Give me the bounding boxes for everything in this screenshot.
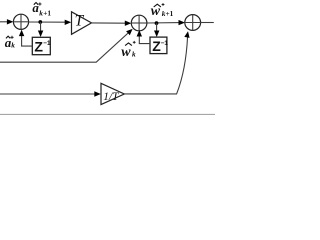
wire branch down to Z1 xyxy=(40,22,42,32)
wire T to S2 xyxy=(92,22,127,24)
arrowhead into summer S1 xyxy=(7,19,13,24)
wire middle input rising to S2 xyxy=(0,32,129,62)
wire output from S3 xyxy=(201,22,214,24)
arrowhead into S2 xyxy=(125,21,132,26)
arrowhead up into S2 xyxy=(137,30,142,37)
amplifier 1/T xyxy=(101,83,124,104)
node junction dot xyxy=(38,20,42,24)
gray rule bottom xyxy=(0,113,215,115)
wire S2 to S3 xyxy=(147,22,181,24)
arrowhead diagonal into S2 xyxy=(126,29,133,35)
svg-text:+1: +1 xyxy=(166,9,174,18)
delay box Z2 xyxy=(150,37,167,54)
arrowhead into Z2 box xyxy=(154,31,159,38)
arrowhead into T xyxy=(65,20,72,25)
svg-text:Z: Z xyxy=(34,38,43,54)
svg-text:−1: −1 xyxy=(161,40,169,47)
svg-text:w: w xyxy=(121,45,131,60)
label a-hat-plus k xyxy=(5,35,16,50)
amplifier T xyxy=(72,12,92,35)
svg-text:k: k xyxy=(132,50,136,59)
summer S2 xyxy=(131,15,147,31)
label w-hat-plus k+1 xyxy=(151,3,174,19)
arrowhead into S3 xyxy=(179,20,186,25)
summer S3 xyxy=(185,15,201,31)
delay box Z1 xyxy=(32,37,50,54)
wire branch down to Z2 xyxy=(156,23,158,32)
svg-text:+1: +1 xyxy=(43,8,51,17)
svg-text:k: k xyxy=(11,41,15,50)
wire Z1 feedback to S1 xyxy=(22,33,33,46)
svg-text:1/T: 1/T xyxy=(103,91,120,103)
wire Z2 feedback to S2 xyxy=(139,33,150,43)
node junction dot 2 xyxy=(155,21,159,25)
svg-text:T: T xyxy=(75,12,85,29)
arrowhead into 1/T xyxy=(94,91,101,96)
label w-hat-plus k xyxy=(121,41,136,60)
arrowhead into Z1 box xyxy=(38,31,43,38)
arrowhead diagonal into S3 xyxy=(184,31,189,38)
wire 1/T output rising to S3 xyxy=(124,36,187,94)
wire bottom input xyxy=(0,93,95,95)
summer S1 xyxy=(13,14,28,29)
label a-hat-plus k+1 xyxy=(32,0,51,17)
arrowhead up into S1 xyxy=(19,30,24,36)
wire top input xyxy=(0,21,9,23)
wire S1 to T amplifier xyxy=(29,21,67,23)
svg-text:−1: −1 xyxy=(43,40,51,47)
